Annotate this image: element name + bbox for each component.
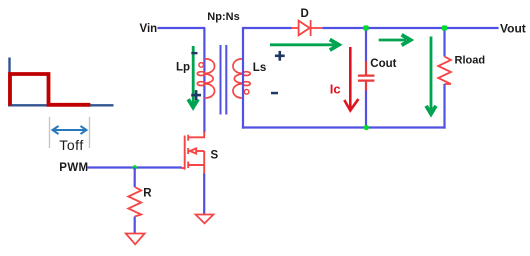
gate line [184,136,186,170]
drain lead [188,132,204,138]
current arrow output (Iload) [426,37,436,114]
svg-text:D: D [301,8,309,20]
wire PWM to gate [87,166,182,168]
capacitor Cout [358,61,375,91]
source vertical [203,151,205,175]
wire Vin to primary [158,27,206,29]
wire Cout node to Rload node [366,27,445,29]
wire primary drop through winding [203,28,205,133]
current arrow into Rload branch [379,35,411,45]
secondary plus sign [275,51,285,61]
inductor Lp primary winding [197,59,214,98]
wire R top lead [134,168,136,188]
wire Cout branch lower [365,90,367,128]
resistor Rload [438,57,451,85]
Toff tick right [89,117,91,148]
diode D [292,20,323,36]
resistor R [128,187,141,217]
svg-text:Np:Ns: Np:Ns [207,11,239,23]
gate lead [181,167,185,169]
wire MOSFET source to ground [203,174,205,215]
Toff tick left [49,117,51,148]
secondary minus sign [271,92,278,95]
waveform axis baseline [8,104,114,106]
transformer core line left [220,45,222,115]
svg-text:Vout: Vout [500,21,526,35]
svg-text:Ic: Ic [330,81,341,96]
wire Cout branch upper [365,28,367,62]
transformer core line right [225,45,227,115]
node junction diode-Cout [363,25,368,30]
node junction bottom rail [364,125,369,130]
secondary polarity dot [244,90,249,95]
svg-text:Toff: Toff [59,137,84,153]
Toff interval arrow [53,126,87,134]
channel bar middle [187,148,189,154]
current arrow secondary (Is) [270,40,339,51]
svg-text:PWM: PWM [59,162,88,174]
ground under R [126,234,145,245]
channel bar bottom [187,162,189,169]
primary polarity dot [199,63,204,68]
ground under MOSFET [196,215,214,224]
body arrow [190,148,196,153]
svg-text:Vin: Vin [140,23,158,35]
transistor Q1 MOSFET S [181,132,204,176]
inductor Ls secondary winding [233,59,250,98]
primary minus sign [191,52,197,54]
wire Rload bottom lead [443,84,445,129]
wire R bottom lead [134,217,136,234]
wire secondary riser through winding [242,28,244,129]
channel bar top [187,135,189,141]
wire secondary top to diode [242,27,292,29]
waveform axis vertical [8,58,10,107]
source lead [188,164,204,166]
current arrow primary (ILp) [188,46,198,107]
svg-text:Lp: Lp [176,61,190,73]
node junction PWM-R [132,165,137,170]
wire Rload node to Vout [445,27,499,29]
wire bottom rail [242,126,446,128]
svg-text:Rload: Rload [455,54,486,66]
current arrow Ic [344,47,358,111]
svg-text:Cout: Cout [370,58,396,70]
node junction Cout-Rload top [442,25,447,30]
primary plus sign [191,90,201,100]
wire Rload top lead [443,28,445,57]
waveform PWM pulse [10,74,90,106]
wire diode to Cout node [322,27,366,29]
svg-text:R: R [143,188,152,200]
svg-text:S: S [211,150,219,162]
svg-text:Ls: Ls [253,62,266,74]
